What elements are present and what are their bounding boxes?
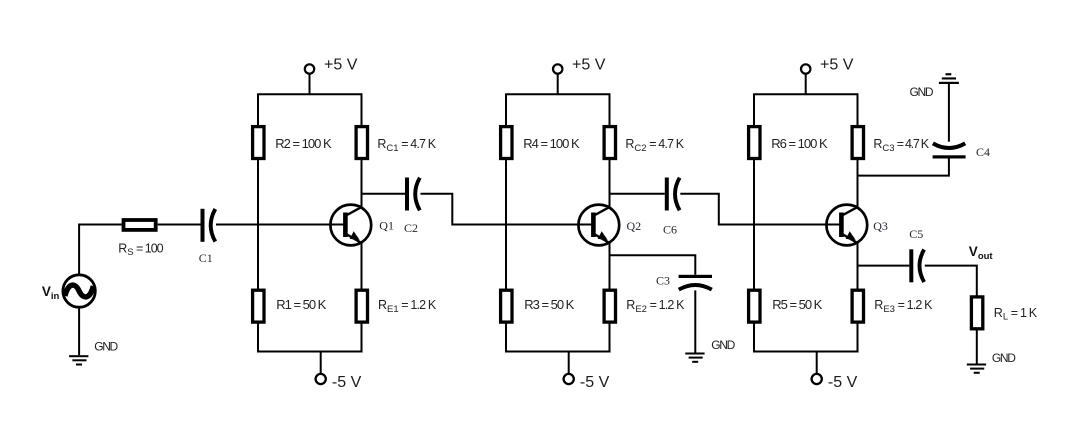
resistor RC3 body <box>852 127 863 159</box>
svg-text:C2: C2 <box>404 221 418 235</box>
svg-text:-5 V: -5 V <box>332 374 362 391</box>
wire: RL to ground <box>976 329 978 364</box>
wire: +5V stub stage2 <box>557 74 559 95</box>
transistor Q3 circle <box>826 205 867 246</box>
transistor Q2 emitter arrow <box>598 231 608 240</box>
wire: stage1 bottom rail <box>257 351 363 353</box>
capacitor C2 curved plate <box>415 178 420 211</box>
svg-text:Q3: Q3 <box>873 219 888 233</box>
ground below source <box>69 355 88 365</box>
inverted ground above C4 <box>939 73 959 84</box>
capacitor C6 curved plate <box>675 178 680 211</box>
resistor R5 body <box>749 290 760 322</box>
wire: RS to C1 <box>158 224 201 226</box>
transistor Q1 emitter stroke <box>346 234 362 243</box>
wire: stage2 left branch middle <box>505 159 507 291</box>
svg-text:R4 = 100 K: R4 = 100 K <box>523 136 580 151</box>
wire: stage2 collector vertical <box>609 159 611 208</box>
wire: stage3 left branch upper <box>753 94 755 126</box>
wire: C6 to Q3 base with step down <box>680 194 840 225</box>
wire: stage3 left branch middle <box>753 159 755 291</box>
capacitor C5 flat plate <box>909 249 913 282</box>
capacitor C5 curved plate <box>920 250 925 283</box>
capacitor C3 curved plate <box>679 285 712 290</box>
wire: stage3 right branch upper <box>857 94 859 126</box>
stage 1: +5V terminal circle <box>305 64 314 73</box>
resistor R4 body <box>501 127 512 159</box>
transistor Q1 base bar <box>343 213 348 238</box>
svg-text:C6: C6 <box>663 222 677 236</box>
wire: -5V stub stage3 <box>816 352 818 375</box>
AC source sine wave <box>65 285 93 297</box>
resistor R2 body <box>253 127 264 159</box>
resistor R3 body <box>501 290 512 322</box>
wire: stage3 emitter vertical <box>857 243 859 291</box>
transistor Q3 collector stroke <box>842 207 858 216</box>
wire: source top to corner <box>79 225 122 275</box>
wire: stage3 bottom rail <box>753 351 859 353</box>
wire: -5V stub stage1 <box>320 352 322 375</box>
wire: -5V stub stage2 <box>568 352 570 375</box>
svg-text:C5: C5 <box>909 227 923 241</box>
resistor R6 body <box>749 127 760 159</box>
wire: stage1 left branch lower <box>257 322 259 351</box>
transistor Q3 base bar <box>839 213 844 238</box>
transistor Q1 circle <box>330 205 371 246</box>
svg-text:Q2: Q2 <box>627 219 642 233</box>
wire: stage2 bottom rail <box>505 351 611 353</box>
wire: stage1 top rail <box>257 93 363 95</box>
resistor RE3 body <box>852 290 863 322</box>
stage2 -5V terminal circle <box>564 374 574 384</box>
wire: stage1 collector vertical <box>361 159 363 208</box>
svg-text:C3: C3 <box>656 273 670 287</box>
capacitor C2 flat plate <box>405 178 409 211</box>
resistor RL body <box>971 297 982 329</box>
wire: source bottom to ground <box>78 307 80 355</box>
wire: stage1 right branch lower <box>361 322 363 351</box>
svg-text:R3 = 50 K: R3 = 50 K <box>524 297 574 312</box>
transistor Q2 circle <box>578 205 619 246</box>
transistor Q2 collector stroke <box>594 207 610 216</box>
wire: stage3 top rail <box>753 93 859 95</box>
svg-text:R2 = 100 K: R2 = 100 K <box>275 136 332 151</box>
wire: C5 to Vout corner and down to RL <box>925 266 977 297</box>
wire: stage3 collector vertical <box>857 159 859 208</box>
wire: stage1 left branch upper <box>257 94 259 126</box>
AC source Vin circle <box>63 275 95 307</box>
svg-text:GND: GND <box>992 351 1016 365</box>
svg-text:-5 V: -5 V <box>828 374 858 391</box>
wire: stage2 left branch lower <box>505 322 507 351</box>
capacitor C1 flat plate <box>201 209 205 242</box>
ground below C3 <box>685 353 704 363</box>
wire: stage1 emitter vertical <box>361 243 363 291</box>
ground below RL <box>967 364 986 374</box>
svg-text:C1: C1 <box>199 251 213 265</box>
svg-text:Q1: Q1 <box>379 218 394 232</box>
stage1 -5V terminal circle <box>316 374 326 384</box>
capacitor C3 flat plate <box>679 275 712 278</box>
transistor Q1 collector stroke <box>346 207 362 216</box>
transistor Q2 emitter stroke <box>594 234 610 243</box>
wire: stage1 left branch middle <box>257 159 259 291</box>
svg-text:+5 V: +5 V <box>820 56 854 73</box>
svg-text:+5 V: +5 V <box>572 56 606 73</box>
svg-text:C4: C4 <box>976 145 990 159</box>
transistor Q3 emitter stroke <box>842 234 858 243</box>
wire: stage2 emitter vertical <box>609 243 611 291</box>
wire: Q3 emitter tap to C5 <box>858 265 910 267</box>
svg-text:R1 = 50 K: R1 = 50 K <box>276 297 326 312</box>
wire: Q3 collector tap to C4 <box>858 159 949 176</box>
wire: Q2 collector tap to C6 <box>610 193 665 195</box>
capacitor C4 flat plate <box>933 155 966 158</box>
svg-text:+5 V: +5 V <box>324 56 358 73</box>
wire: stage2 top rail <box>505 93 611 95</box>
wire: Q2 emitter tap to C3 <box>610 255 696 275</box>
svg-text:GND: GND <box>910 85 934 99</box>
svg-text:R5 = 50 K: R5 = 50 K <box>772 297 822 312</box>
wire: Q1 collector tap to C2 <box>362 193 406 195</box>
wire: stage2 right branch lower <box>609 322 611 351</box>
svg-text:GND: GND <box>94 340 118 354</box>
wire: C2 to Q2 base with step down <box>421 194 593 225</box>
resistor RE1 body <box>356 290 367 322</box>
svg-text:-5 V: -5 V <box>580 374 610 391</box>
svg-text:GND: GND <box>711 338 735 352</box>
wire: stage1 right branch upper <box>361 94 363 126</box>
stage3 -5V terminal circle <box>812 374 822 384</box>
transistor Q3 emitter arrow <box>846 231 856 240</box>
wire: +5V stub stage3 <box>805 74 807 95</box>
wire: stage2 right branch upper <box>609 94 611 126</box>
wire: C4 to top ground <box>948 84 950 142</box>
stage 3: +5V terminal circle <box>801 64 810 73</box>
resistor R1 body <box>253 290 264 322</box>
transistor Q1 emitter arrow <box>350 231 360 240</box>
wire: stage3 left branch lower <box>753 322 755 351</box>
capacitor C6 flat plate <box>665 178 669 211</box>
wire: +5V stub stage1 <box>309 74 311 95</box>
wire: stage3 right branch lower <box>857 322 859 351</box>
wire: stage2 left branch upper <box>505 94 507 126</box>
svg-text:R6 = 100 K: R6 = 100 K <box>771 136 828 151</box>
resistor RS body <box>124 220 156 230</box>
resistor RC2 body <box>604 127 615 159</box>
capacitor C1 curved plate <box>211 209 216 242</box>
resistor RC1 body <box>356 127 367 159</box>
resistor RE2 body <box>604 290 615 322</box>
capacitor C4 curved plate <box>933 143 965 148</box>
transistor Q2 base bar <box>591 213 596 238</box>
wire: C1 to Q1 base (crosses stage1 left branch) <box>216 224 345 226</box>
stage 2: +5V terminal circle <box>553 64 562 73</box>
wire: C3 to ground <box>694 290 696 352</box>
